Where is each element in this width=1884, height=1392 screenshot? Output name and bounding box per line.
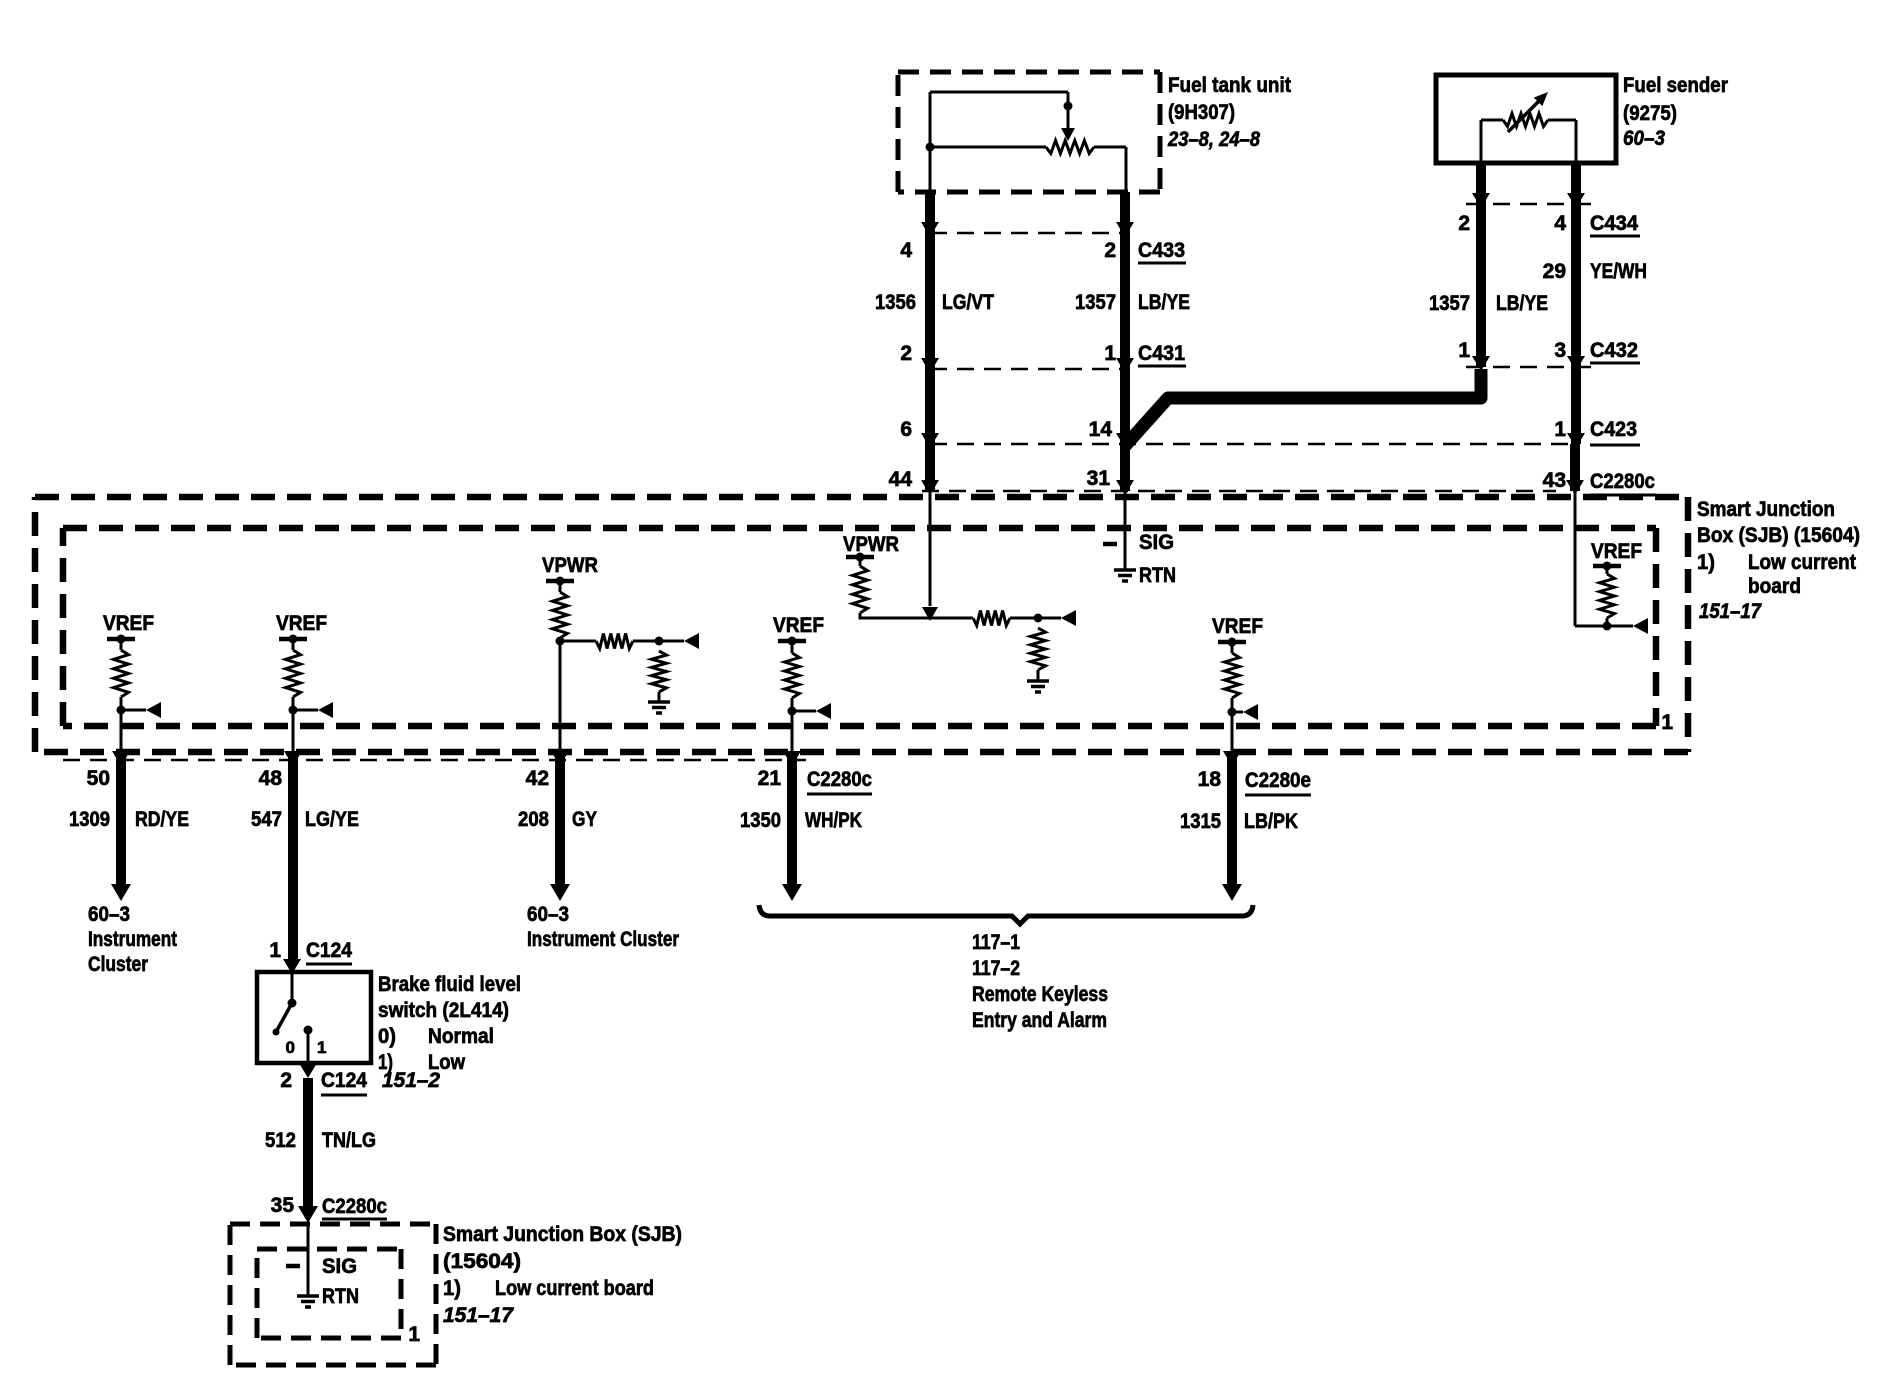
svg-text:Fuel sender: Fuel sender	[1623, 74, 1728, 97]
svg-text:Cluster: Cluster	[88, 953, 148, 976]
svg-text:21: 21	[758, 767, 782, 790]
svg-text:(15604): (15604)	[443, 1250, 521, 1273]
svg-text:60–3: 60–3	[527, 903, 569, 926]
fuel sender label	[1623, 74, 1728, 150]
svg-text:VPWR: VPWR	[542, 554, 598, 577]
svg-text:2: 2	[1458, 212, 1470, 235]
wire 1356 labels	[875, 291, 994, 314]
Smart Junction Box (SJB) bottom outer dashed border	[230, 1224, 436, 1365]
svg-text:board: board	[1748, 575, 1801, 598]
brake fluid level switch label	[378, 973, 521, 1092]
wire 1309 RD/YE at SJB pin 50	[111, 751, 131, 901]
svg-text:C2280c: C2280c	[1590, 470, 1655, 493]
svg-text:512: 512	[265, 1129, 296, 1152]
svg-text:YE/WH: YE/WH	[1590, 260, 1647, 283]
Smart Junction Box (SJB) bottom inner dashed border	[257, 1249, 401, 1338]
svg-text:Instrument Cluster: Instrument Cluster	[527, 928, 679, 951]
wire: heavy bus from fuel sender pin 1 to pin 14	[1125, 369, 1481, 446]
svg-text:44: 44	[889, 468, 913, 491]
svg-text:C2280c: C2280c	[807, 768, 872, 791]
wire 1357 labels (sender side)	[1429, 292, 1548, 315]
Smart Junction Box (SJB) outer dashed border	[35, 497, 1688, 752]
svg-text:Normal: Normal	[428, 1025, 494, 1048]
svg-text:LB/PK: LB/PK	[1244, 810, 1298, 833]
Smart Junction Box (SJB) inner dashed border	[63, 528, 1656, 726]
svg-text:117–1: 117–1	[972, 931, 1020, 954]
connector C434	[1458, 204, 1640, 236]
fuel tank unit label	[1167, 74, 1291, 151]
svg-text:0: 0	[286, 1038, 295, 1057]
svg-text:Low current board: Low current board	[495, 1277, 654, 1300]
svg-text:Entry and Alarm: Entry and Alarm	[972, 1009, 1107, 1032]
VPWR supply resistor network at pin 42	[542, 554, 699, 752]
VREF supply resistor network at pin 43	[1575, 491, 1648, 634]
svg-text:18: 18	[1198, 768, 1222, 791]
connector C423 row	[900, 418, 1640, 445]
svg-text:SIG: SIG	[322, 1255, 357, 1278]
svg-text:4: 4	[1554, 212, 1566, 235]
svg-text:LG/YE: LG/YE	[305, 808, 359, 831]
svg-text:151–17: 151–17	[443, 1304, 514, 1327]
wire 512 TN/LG: brake switch to SJB pin 35	[298, 1078, 318, 1223]
svg-text:1: 1	[269, 939, 281, 962]
svg-text:1): 1)	[443, 1277, 461, 1300]
svg-text:C431: C431	[1138, 342, 1185, 365]
Smart Junction Box label	[1697, 498, 1860, 623]
svg-text:C124: C124	[321, 1069, 367, 1092]
destination: remote keyless entry and alarm	[972, 931, 1108, 1032]
SJB low-current-board corner label 1	[1661, 711, 1673, 734]
wire 29 labels	[1543, 260, 1647, 283]
svg-text:35: 35	[271, 1194, 295, 1217]
svg-text:1: 1	[1661, 711, 1673, 734]
svg-text:RTN: RTN	[322, 1285, 359, 1308]
Smart Junction Box bottom label	[443, 1223, 682, 1327]
svg-text:31: 31	[1087, 467, 1111, 490]
svg-text:0): 0)	[378, 1025, 396, 1048]
svg-text:Brake fluid level: Brake fluid level	[378, 973, 521, 996]
svg-text:1: 1	[317, 1038, 326, 1057]
svg-text:2: 2	[1104, 239, 1116, 262]
svg-text:42: 42	[526, 767, 549, 790]
SIG RTN ground at SJB pin 35	[286, 1224, 359, 1308]
svg-text:C433: C433	[1138, 239, 1185, 262]
fuel sender internal rheostat	[1481, 92, 1576, 163]
svg-text:C432: C432	[1590, 339, 1638, 362]
pin 48 labels	[251, 767, 359, 831]
connector C124 (pin 1)	[269, 939, 352, 964]
wire 1357 labels (tank side)	[1075, 291, 1190, 314]
svg-text:C2280e: C2280e	[1245, 769, 1311, 792]
svg-text:Low current: Low current	[1748, 551, 1856, 574]
wire 1350 WH/PK at SJB pin 21	[782, 751, 802, 901]
pin 42 labels	[518, 767, 597, 831]
svg-text:Smart Junction: Smart Junction	[1697, 498, 1835, 521]
wire 547 LG/YE at SJB pin 48	[283, 751, 302, 974]
VREF supply resistor network at pin 18	[1212, 615, 1263, 752]
pin 18 labels	[1180, 768, 1311, 833]
svg-text:151–2: 151–2	[382, 1069, 440, 1092]
fuel sender (9275) box	[1436, 75, 1616, 163]
VREF supply resistor network at pin 50	[103, 612, 161, 752]
svg-text:1: 1	[1104, 342, 1116, 365]
VREF supply resistor network at pin 21	[773, 614, 831, 752]
svg-text:1): 1)	[1697, 551, 1715, 574]
wire 512 labels	[265, 1129, 376, 1152]
svg-text:Box (SJB) (15604): Box (SJB) (15604)	[1697, 524, 1860, 547]
svg-text:23–8, 24–8: 23–8, 24–8	[1167, 128, 1260, 151]
svg-text:43: 43	[1543, 469, 1566, 492]
fuel tank unit (9H307) dashed box	[898, 72, 1160, 192]
svg-text:1: 1	[1458, 339, 1470, 362]
svg-text:29: 29	[1543, 260, 1566, 283]
svg-text:VREF: VREF	[1591, 540, 1642, 563]
wire 29 YE/WH: fuel sender pin 4 down to SJB pin 43	[1566, 163, 1585, 495]
fuel tank unit internal fuel level potentiometer	[926, 92, 1127, 192]
wire 1356 LG/VT: fuel tank pin 4 down to SJB pin 44	[921, 192, 939, 495]
destination: instrument cluster (pin 42)	[527, 903, 679, 951]
svg-text:1350: 1350	[740, 809, 781, 832]
brake fluid level switch contacts	[273, 972, 327, 1063]
svg-text:(9275): (9275)	[1623, 102, 1677, 125]
connector C433	[900, 233, 1186, 263]
svg-text:48: 48	[259, 767, 283, 790]
svg-text:C434: C434	[1590, 212, 1638, 235]
svg-text:LG/VT: LG/VT	[942, 291, 994, 314]
svg-text:Instrument: Instrument	[88, 928, 177, 951]
SJB bottom corner label 1	[408, 1323, 420, 1346]
svg-text:C124: C124	[306, 939, 352, 962]
svg-text:547: 547	[251, 808, 282, 831]
svg-text:6: 6	[900, 418, 912, 441]
svg-text:C2280c: C2280c	[322, 1195, 387, 1218]
svg-text:60–3: 60–3	[1623, 127, 1665, 150]
destination: instrument cluster (pin 50)	[88, 903, 177, 976]
svg-text:Fuel tank unit: Fuel tank unit	[1168, 74, 1291, 97]
VREF supply resistor network at pin 48	[276, 612, 333, 752]
pin 50 labels	[69, 767, 189, 831]
svg-text:LB/YE: LB/YE	[1138, 291, 1190, 314]
svg-text:RD/YE: RD/YE	[135, 808, 189, 831]
svg-text:VREF: VREF	[103, 612, 154, 635]
connector C432	[1458, 339, 1640, 367]
svg-text:switch (2L414): switch (2L414)	[378, 999, 509, 1022]
svg-text:VREF: VREF	[276, 612, 327, 635]
wire 1357 LB/YE: fuel sender pin 2 down to bus	[1472, 163, 1490, 371]
wire 208 GY at SJB pin 42	[550, 751, 570, 901]
svg-text:14: 14	[1089, 418, 1113, 441]
svg-text:RTN: RTN	[1139, 564, 1176, 587]
brake fluid level switch (2L414) box	[257, 972, 371, 1063]
svg-text:VREF: VREF	[1212, 615, 1263, 638]
svg-text:Smart Junction Box (SJB): Smart Junction Box (SJB)	[443, 1223, 682, 1246]
connector C431	[900, 342, 1186, 369]
bottom connector boundary line	[63, 759, 806, 762]
svg-text:1: 1	[1554, 418, 1566, 441]
svg-text:VREF: VREF	[773, 614, 824, 637]
wire from SJB pin 44 into junction box	[922, 491, 938, 621]
pin 21 labels	[740, 767, 872, 832]
svg-text:Remote Keyless: Remote Keyless	[972, 983, 1108, 1006]
svg-text:GY: GY	[572, 808, 597, 831]
svg-text:2: 2	[900, 342, 912, 365]
svg-text:C423: C423	[1590, 418, 1637, 441]
svg-text:(9H307): (9H307)	[1168, 101, 1235, 124]
svg-text:208: 208	[518, 808, 549, 831]
svg-text:1: 1	[408, 1323, 420, 1346]
svg-text:4: 4	[900, 239, 912, 262]
svg-text:151–17: 151–17	[1699, 600, 1762, 623]
connector C124 (pin 2)	[280, 1063, 367, 1095]
svg-text:1356: 1356	[875, 291, 916, 314]
svg-text:1309: 1309	[69, 808, 110, 831]
svg-text:TN/LG: TN/LG	[322, 1129, 376, 1152]
SIG RTN ground at SJB pin 31	[1103, 491, 1176, 587]
svg-text:WH/PK: WH/PK	[805, 809, 862, 832]
svg-text:1357: 1357	[1429, 292, 1470, 315]
brace: remote keyless entry and alarm wires	[759, 905, 1253, 924]
svg-text:1315: 1315	[1180, 810, 1221, 833]
svg-text:VPWR: VPWR	[843, 533, 899, 556]
svg-text:SIG: SIG	[1139, 531, 1174, 554]
svg-text:LB/YE: LB/YE	[1496, 292, 1548, 315]
svg-text:1357: 1357	[1075, 291, 1116, 314]
svg-text:2: 2	[280, 1069, 292, 1092]
svg-text:50: 50	[87, 767, 110, 790]
VPWR supply resistor network at pin 44 node	[843, 533, 1076, 692]
connector C2280c top row	[889, 467, 1656, 495]
svg-text:117–2: 117–2	[972, 957, 1020, 980]
svg-text:60–3: 60–3	[88, 903, 130, 926]
svg-text:3: 3	[1554, 339, 1566, 362]
wire 1315 LB/PK at SJB pin 18	[1222, 751, 1242, 901]
connector C2280c (pin 35)	[271, 1194, 388, 1219]
wire 1357 LB/YE: fuel tank pin 2 down to SJB pin 31	[1116, 192, 1134, 495]
